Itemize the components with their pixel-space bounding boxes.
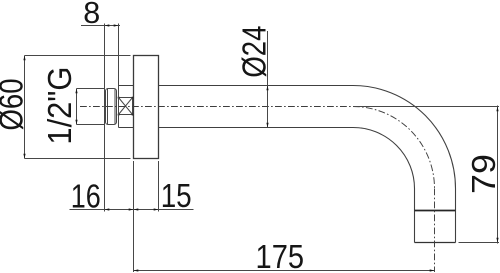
aerator joint line <box>415 210 456 212</box>
dimension Ø24 leader line with arrows <box>266 31 268 128</box>
connection nut <box>106 89 117 125</box>
spout tube straight section top <box>159 85 354 87</box>
centerline downspout vertical (dash-dot) <box>434 189 436 273</box>
dimension 15 right extension line <box>158 161 160 212</box>
svg-text:1/2"G: 1/2"G <box>41 67 78 145</box>
threaded inlet stem 1/2"G <box>75 89 104 125</box>
dimension 8: dim line with arrows <box>81 24 120 26</box>
spout tube straight section bottom <box>159 127 354 129</box>
spout bend inner arc <box>353 128 415 189</box>
dimension 79 dim line with arrows <box>496 106 498 244</box>
dimension Ø60 extension top <box>25 55 131 57</box>
spout tip line <box>415 242 456 244</box>
dimension 175 dim line with arrows <box>134 269 435 271</box>
svg-text:8: 8 <box>83 0 100 30</box>
dimension 79 extension top (at spout centerline) <box>353 106 499 108</box>
svg-text:Ø24: Ø24 <box>236 26 273 78</box>
dimension 16/15 shared dim line with arrows <box>70 208 194 210</box>
svg-text:16: 16 <box>71 178 101 215</box>
centerline bend arc (dash-dot) <box>353 107 435 189</box>
valve cross box (section symbol) <box>118 97 134 116</box>
svg-text:Ø60: Ø60 <box>0 79 30 131</box>
svg-text:15: 15 <box>161 177 192 214</box>
dimension 8 left extension line (long, shared with dim 16) <box>104 24 106 212</box>
wall plane extension line (flange back, down to dim 175) <box>133 161 135 272</box>
spout tube hidden segment behind wall (left of flange) <box>119 85 134 87</box>
dimension Ø60 extension bottom <box>25 158 131 160</box>
dimension Ø60: dim line with arrows <box>23 56 25 159</box>
spout bend outer arc <box>353 86 456 189</box>
wall flange plate Ø60 (side view) <box>134 56 159 159</box>
svg-text:79: 79 <box>465 154 500 194</box>
dimension 79 extension bottom (at spout tip) <box>459 242 500 244</box>
svg-text:175: 175 <box>256 238 305 273</box>
downspout right edge <box>455 189 457 243</box>
centerline horizontal (dash-dot) <box>80 106 353 108</box>
downspout left edge <box>414 189 416 243</box>
dimension 8 right extension line <box>118 24 120 128</box>
